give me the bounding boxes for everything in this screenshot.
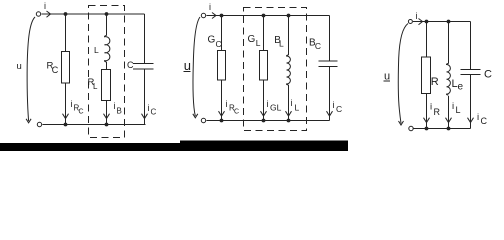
svg-text:u: u (17, 61, 22, 72)
svg-text:C: C (127, 60, 134, 70)
svg-text:i: i (291, 98, 293, 108)
svg-text:R: R (431, 76, 439, 88)
svg-text:C: C (481, 116, 488, 126)
svg-text:C: C (315, 41, 321, 51)
svg-text:L: L (93, 82, 98, 91)
svg-text:i: i (148, 103, 150, 113)
svg-text:C: C (336, 104, 342, 114)
svg-text:L: L (94, 45, 99, 55)
svg-text:L: L (279, 39, 284, 49)
svg-text:i: i (416, 11, 418, 21)
svg-text:G: G (208, 35, 216, 46)
svg-text:R: R (434, 107, 441, 117)
svg-text:C: C (79, 109, 84, 116)
svg-text:C: C (151, 108, 157, 117)
svg-text:i: i (267, 99, 269, 109)
svg-text:GL: GL (270, 103, 282, 113)
svg-text:i: i (71, 99, 73, 109)
svg-text:i: i (477, 112, 479, 123)
svg-text:L: L (456, 105, 461, 115)
svg-text:i: i (333, 100, 335, 110)
svg-text:B: B (117, 107, 122, 116)
svg-text:i: i (226, 99, 228, 109)
svg-text:i: i (114, 101, 116, 111)
svg-text:i: i (430, 102, 432, 113)
svg-text:C: C (234, 109, 239, 116)
svg-text:i: i (452, 101, 454, 112)
svg-text:e: e (458, 82, 464, 93)
svg-text:i: i (44, 1, 46, 11)
svg-text:i: i (209, 2, 211, 12)
svg-text:C: C (52, 65, 59, 75)
svg-text:u: u (184, 58, 191, 73)
svg-text:C: C (484, 69, 492, 81)
svg-text:G: G (248, 34, 256, 45)
svg-text:L: L (256, 38, 261, 48)
svg-text:L: L (295, 103, 300, 113)
svg-text:C: C (216, 39, 222, 49)
